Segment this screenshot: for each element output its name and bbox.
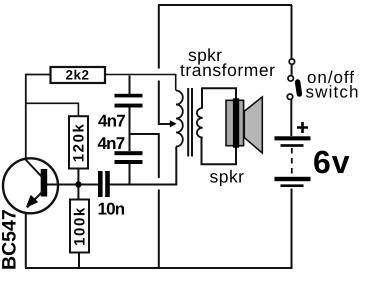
resistor R3 100k [70,200,89,253]
wire: emitter column [25,212,27,268]
svg-text:120k: 120k [71,123,88,163]
svg-text:2k2: 2k2 [65,68,89,83]
battery B1 positive plate (long) [275,136,311,140]
capacitor C1 4n7 (upper) [115,94,143,108]
wire: 10n to transformer primary bottom [110,147,177,185]
capacitor C2 4n7 (lower) [115,151,143,164]
wire: top rail down to primary centre tap (hops over collector wire) [159,5,170,124]
junction dot base/120k/100k [75,181,81,187]
battery B1 dashed middle [291,148,293,176]
svg-text:switch: switch [306,83,359,102]
switch SW1 wire between circles [291,64,293,75]
speaker SPK body [226,100,244,145]
wire: collector column with 2k2 branch [26,75,51,159]
centre tap arrowhead [170,120,177,127]
switch SW1 terminal circle top [289,59,294,64]
wire: 100k bottom to ground rail [78,253,80,269]
battery B1 long plate 2 [275,177,311,181]
switch SW1 contact circle bottom [287,94,292,99]
svg-text:BC547: BC547 [0,209,21,270]
battery B1 short plate 1 [281,144,304,147]
wire: C1 to C2 [129,108,131,152]
switch SW1 contact circle middle [288,76,293,81]
wire: cap midpoint to ground rail (hops over base wire) [130,134,159,268]
wire: 2k2 to transformer primary top [105,75,176,91]
wire: bottom ground rail [25,267,293,269]
battery B1 plus sign [297,122,308,133]
wire: right rail top (rail to switch) [291,5,293,59]
speaker SPK cone [244,97,262,153]
transformer T1 secondary winding [197,108,203,138]
svg-text:4n7: 4n7 [98,111,125,130]
svg-text:10n: 10n [98,199,125,218]
wire: battery to bottom rail [291,189,293,269]
capacitor C3 10n [98,171,110,197]
svg-text:transformer: transformer [180,60,275,80]
wire: switch to battery [290,100,292,137]
svg-text:100k: 100k [72,206,89,246]
svg-text:6v: 6v [313,144,351,180]
wire: C2 to base wire [129,164,131,185]
switch SW1 lever [298,82,300,94]
svg-text:spkr: spkr [210,167,245,187]
battery B1 short plate 2 [281,184,304,187]
transformer T1 primary winding [176,91,183,147]
speaker SPK magnet bar [233,98,239,147]
resistor R2 120k [69,116,88,168]
wire: speaker loop [202,88,237,164]
wire: top +6V rail [158,4,292,6]
wire: base to 10n [47,184,98,186]
wire: base junction to 100k top [77,185,79,200]
resistor R1 2k2 [51,67,106,83]
wire: collector branch to 120k top [26,103,79,116]
transformer T1 core [188,88,192,157]
transistor Q1 BC547 [3,158,58,213]
wire: node Y down to C1 [129,76,131,95]
wire: 120k bottom to base junction [77,169,79,185]
svg-text:4n7: 4n7 [98,134,125,153]
